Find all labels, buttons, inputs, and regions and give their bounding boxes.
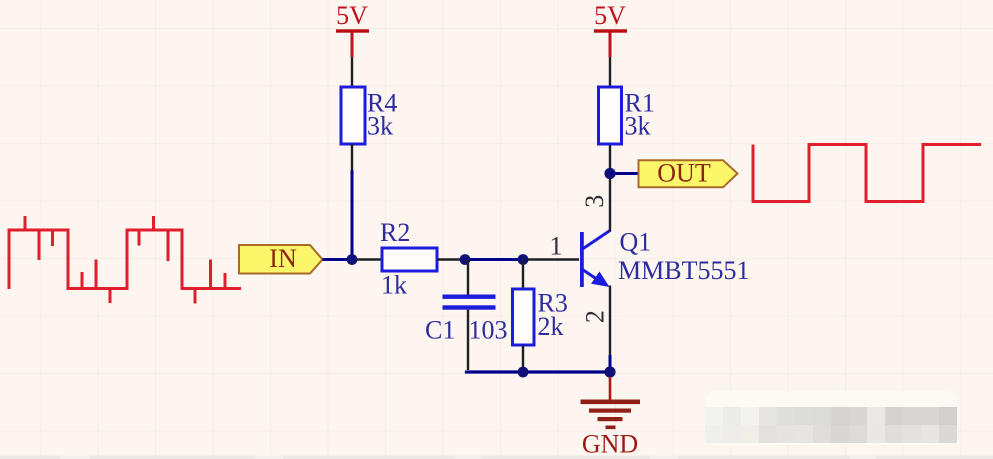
input waveform [9,216,241,304]
resistor R2 [380,218,437,300]
ground [581,400,641,459]
svg-text:C1: C1 [425,316,455,345]
wire: Q1 collector up to OUT junction and R1 [609,144,611,232]
svg-text:2k: 2k [538,312,564,341]
wire: IN to junction [323,258,353,261]
svg-text:103: 103 [469,316,508,345]
svg-text:MMBT5551: MMBT5551 [618,256,749,285]
wire: C1 junction to R3 junction [465,258,523,261]
svg-text:3k: 3k [367,112,393,141]
power 5V (left) [336,1,369,57]
capacitor C1 [425,295,508,345]
svg-text:3: 3 [580,195,609,208]
node: bottom rail / emitter / ground junction [604,366,615,377]
svg-text:5V: 5V [594,1,626,30]
svg-text:1k: 1k [381,271,407,300]
node: bottom rail / R3 junction [518,367,529,378]
power 5V (right) [594,1,627,57]
resistor R1 [599,87,655,144]
node: IN/R4/R2 junction [347,254,358,265]
IN label [239,244,323,274]
resistor R4 [341,87,397,144]
wire: junction down to C1 [467,260,469,296]
wire: 5V to R4 pin [351,57,353,88]
transistor Q1 [580,228,749,288]
wire: R4 bottom pin [351,144,353,170]
svg-text:Q1: Q1 [620,228,652,257]
wire: junction down to ground [609,377,612,400]
wire: R3 to bottom rail [522,345,524,372]
wire: R2 to C1 junction [437,258,465,260]
wire: Q1 emitter down [609,286,611,356]
wire: junction down to R3 [522,260,524,290]
wire: 5V to R1 pin [609,57,611,88]
wire: emitter to bottom rail [609,355,612,372]
wire: junction to OUT label [610,172,639,175]
wire: junction to R2 [352,258,382,260]
svg-text:OUT: OUT [657,158,711,187]
svg-text:IN: IN [269,244,297,273]
svg-text:5V: 5V [336,1,368,30]
wire: R4 to IN junction [351,170,354,260]
resistor R3 [513,289,568,346]
wire: C1 down to bottom rail [467,310,469,370]
svg-text:3k: 3k [625,112,651,141]
wire: R3 junction to Q1 base [523,258,579,260]
node: OUT junction [604,168,615,179]
svg-text:R2: R2 [380,218,410,247]
node: C1/R3 junction [518,254,529,265]
svg-text:1: 1 [550,232,563,261]
svg-text:GND: GND [582,430,638,459]
node: R2/C1 junction [460,254,471,265]
OUT label [639,158,738,187]
svg-text:2: 2 [581,310,610,323]
output waveform [753,145,981,202]
wire: bottom rail [467,371,611,373]
